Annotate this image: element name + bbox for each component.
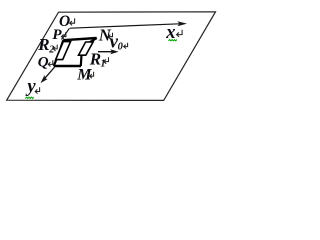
resistor R1 box (right side) [79, 42, 94, 55]
green squiggle under x [169, 40, 177, 41]
loop bottom wire Q-M [54, 65, 81, 68]
loop top wire P-N [63, 38, 96, 40]
return mark after R2 [53, 45, 57, 51]
svg-text:R: R [37, 35, 49, 54]
resistor R2 box (left side) [56, 42, 71, 60]
y axis upper segment [62, 28, 70, 39]
return mark after x [177, 30, 183, 37]
green squiggle under y [25, 97, 33, 98]
return mark after Q [48, 60, 53, 66]
return mark after y [35, 87, 39, 93]
svg-text:2: 2 [48, 45, 54, 56]
svg-text:R: R [89, 50, 101, 69]
svg-text:M: M [76, 67, 92, 84]
return mark after M [90, 72, 94, 79]
y axis arrowhead [41, 75, 48, 83]
svg-text:0: 0 [118, 41, 124, 52]
return mark after O [70, 18, 75, 25]
inclined plane surface (parallelogram) [7, 12, 216, 101]
x axis arrowhead [177, 21, 187, 26]
loop left wire P-Q [54, 40, 63, 66]
return mark after N [108, 33, 112, 39]
loop right wire N-M [81, 38, 97, 66]
x axis wire [70, 24, 180, 28]
svg-text:P: P [52, 27, 62, 43]
return mark after P [62, 32, 66, 39]
svg-text:Q: Q [38, 55, 49, 71]
return mark after R1 [104, 57, 109, 64]
v0 velocity arrow [98, 51, 113, 53]
svg-text:y: y [25, 77, 36, 97]
y axis lower segment [44, 67, 55, 80]
return mark after v0 [124, 43, 128, 49]
